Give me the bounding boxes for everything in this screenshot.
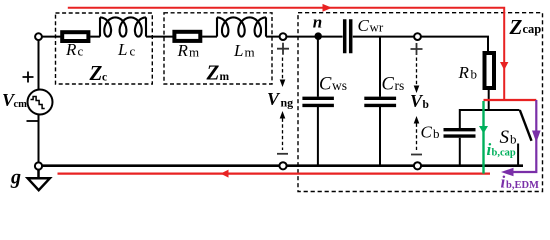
wire left vertical [38, 41, 40, 163]
svg-text:C: C [382, 75, 395, 95]
inductor Lc [100, 17, 146, 36]
svg-text:L: L [117, 40, 127, 59]
plus Vcm [23, 72, 34, 83]
wire Crs down [379, 107, 381, 166]
arrow Vng bottom [280, 111, 286, 119]
svg-text:i: i [501, 172, 506, 191]
resistor Rm [174, 32, 200, 41]
arrow purple down [532, 131, 541, 143]
svg-text:b: b [471, 67, 478, 82]
svg-text:m: m [245, 45, 255, 60]
svg-text:R: R [458, 63, 470, 82]
arrow Vng top [282, 58, 284, 81]
svg-text:b: b [433, 126, 440, 141]
capacitor Cwr [345, 19, 351, 53]
node terminal mid bottom [279, 162, 286, 169]
svg-text:cm: cm [14, 99, 28, 110]
svg-text:S: S [500, 127, 510, 148]
wire red mid horizontal [484, 99, 537, 101]
svg-text:cap: cap [523, 22, 542, 36]
node terminal left-bottom [35, 162, 42, 169]
svg-text:C: C [421, 123, 433, 142]
svg-text:Z: Z [206, 60, 220, 84]
svg-text:Z: Z [89, 61, 103, 85]
dashed box Zc [56, 13, 153, 84]
arrow Vb top [416, 58, 418, 87]
inductor Lm [217, 17, 266, 36]
svg-text:m: m [220, 71, 230, 83]
arrow red bottom [221, 170, 229, 178]
svg-text:c: c [130, 43, 136, 58]
svg-text:ng: ng [281, 96, 294, 110]
wire Cws down [317, 107, 319, 166]
wire battery top rail [460, 110, 520, 128]
svg-text:g: g [10, 166, 21, 188]
arrow purple left [501, 168, 514, 177]
wire purple ib,EDM [508, 100, 536, 172]
node n [314, 32, 322, 40]
svg-text:n: n [313, 13, 322, 32]
node terminal mid [280, 33, 287, 40]
capacitor Cb [444, 130, 476, 136]
svg-text:ws: ws [332, 78, 347, 93]
svg-text:rs: rs [395, 78, 405, 93]
source Vcm [28, 90, 53, 115]
svg-text:c: c [78, 43, 84, 58]
node terminal right [414, 33, 421, 40]
svg-text:c: c [102, 71, 107, 83]
wire node n down [317, 37, 319, 97]
wire red top [68, 8, 504, 99]
ground [28, 170, 50, 191]
minus Vb [411, 154, 422, 156]
svg-text:C: C [358, 16, 370, 35]
arrow red top [323, 4, 333, 12]
svg-text:V: V [267, 89, 281, 109]
node terminal left [35, 33, 42, 40]
capacitor Crs [364, 98, 396, 105]
node terminal right bottom [414, 162, 421, 169]
svg-text:R: R [65, 40, 77, 59]
wire Rb bottom [488, 90, 490, 110]
resistor Rc [62, 32, 88, 41]
svg-text:b: b [423, 99, 429, 111]
wire green ib,cap [482, 101, 484, 174]
plus Vng [277, 43, 289, 55]
plus Vb [411, 43, 423, 55]
capacitor Cws [302, 98, 334, 105]
switch Sb bottom contact [517, 144, 519, 166]
arrow green [479, 126, 488, 134]
svg-text:b,cap: b,cap [492, 148, 516, 159]
minus Vng [277, 153, 288, 155]
wire red bottom [58, 173, 491, 175]
svg-text:Z: Z [509, 15, 523, 39]
svg-text:m: m [189, 45, 199, 60]
svg-text:C: C [319, 75, 332, 95]
minus Vcm [27, 120, 38, 122]
wire bottom bus [42, 164, 523, 167]
dashed box Zm [164, 13, 272, 84]
svg-text:wr: wr [370, 20, 384, 35]
svg-text:L: L [233, 41, 243, 60]
svg-text:b,EDM: b,EDM [506, 180, 539, 191]
wire Cb down [459, 138, 461, 166]
wire top left [42, 37, 488, 51]
resistor Rb [485, 53, 495, 88]
svg-text:R: R [177, 41, 189, 60]
switch Sb blade [520, 110, 532, 141]
svg-text:b: b [510, 132, 517, 147]
arrow Vb bottom [414, 116, 420, 124]
arrow red right vertical [500, 62, 508, 70]
dashed box Zcap [298, 13, 543, 192]
wire Crs top [379, 37, 381, 97]
